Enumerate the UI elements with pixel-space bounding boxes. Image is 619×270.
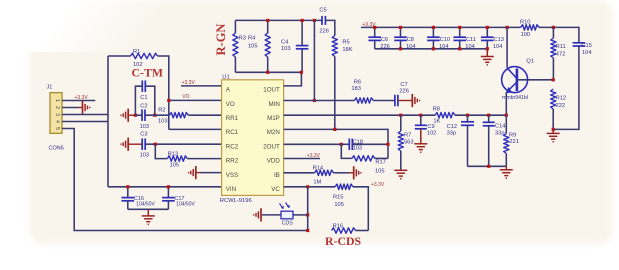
svg-text:104/50V: 104/50V: [136, 202, 155, 208]
svg-text:103: 103: [140, 152, 150, 158]
capacitor C3: [141, 138, 143, 150]
resistor R14: [315, 170, 334, 175]
resistor R17: [352, 156, 375, 161]
resistor R2: [169, 113, 188, 118]
resistor R9: [505, 115, 507, 133]
svg-text:Q1: Q1: [526, 59, 534, 65]
wire: RC1 pin wire: [169, 128, 222, 130]
svg-text:33p: 33p: [447, 130, 457, 136]
wire: R8 to emitter node: [455, 114, 506, 116]
node M2N-R5 junction: [333, 128, 336, 131]
node VO junction: [167, 99, 170, 102]
ground below C16/C17: [147, 209, 149, 216]
node base junction: [552, 78, 555, 81]
svg-text:U1: U1: [222, 75, 229, 81]
wire: C5 to R5 corner: [325, 20, 334, 35]
ground below C9: [420, 129, 422, 144]
wire: R6 to C7: [373, 100, 395, 102]
svg-text:C6: C6: [381, 37, 388, 43]
svg-text:RCWL-9196: RCWL-9196: [220, 198, 252, 204]
wire: IB pin to R14: [284, 172, 315, 174]
svg-text:103: 103: [140, 124, 150, 130]
svg-text:R11: R11: [556, 44, 566, 50]
node VC junction: [306, 185, 309, 188]
capacitor C1 with parallel loop: [135, 86, 142, 115]
svg-text:VIN: VIN: [226, 186, 236, 193]
resistor R13: [167, 156, 187, 161]
wire: R1 right lead and vertical to VO/RC1: [158, 56, 169, 129]
node RC2 junction: [154, 143, 157, 146]
svg-text:M1P: M1P: [267, 115, 280, 122]
svg-text:C11: C11: [466, 37, 476, 43]
svg-text:+3.3V: +3.3V: [371, 182, 385, 188]
svg-text:J1: J1: [47, 85, 53, 91]
svg-text:R10: R10: [520, 19, 530, 25]
photoresistor CDS: [293, 214, 308, 216]
svg-text:RR1: RR1: [226, 115, 239, 122]
svg-text:R16: R16: [333, 223, 343, 229]
ground at CDS left (sideways): [260, 208, 262, 221]
node MIN junction: [313, 99, 316, 102]
svg-text:MIN: MIN: [268, 101, 279, 108]
capacitor C17: [167, 187, 169, 198]
wire: R15 right to +3.3V corner: [353, 187, 368, 231]
wire: R5 down to M2N: [334, 57, 336, 130]
wire: left vertical bus (R1/pin3/pin4/VIN): [107, 56, 109, 187]
svg-text:R-GN: R-GN: [214, 24, 228, 56]
resistor R7: [400, 115, 402, 131]
wire: J1 pin1 to +3.3V: [62, 100, 95, 102]
svg-text:C7: C7: [400, 82, 407, 88]
svg-text:R13: R13: [168, 151, 178, 157]
node C1-C2 left junction: [134, 114, 137, 117]
svg-text:R9: R9: [509, 133, 516, 139]
svg-text:226: 226: [399, 89, 409, 95]
wire: R14 to ground: [334, 172, 350, 174]
svg-text:RC1: RC1: [226, 129, 239, 136]
resistor R4: [267, 20, 269, 33]
wire: C15 down to R12 bottom: [553, 46, 579, 129]
wire: VC vertical to CDS and bottom: [307, 187, 309, 231]
resistor R15: [335, 184, 353, 189]
wire: R16 right lead: [356, 230, 369, 232]
capacitor C2: [135, 114, 142, 116]
wire: VDD pin to +3.3V: [284, 158, 320, 160]
svg-text:R3: R3: [239, 36, 246, 42]
resistor R10: [521, 25, 539, 30]
svg-text:CDS: CDS: [282, 221, 293, 227]
resistor R16: [332, 228, 356, 233]
ground below R12: [552, 129, 554, 133]
node CDS junction: [306, 213, 309, 216]
wire: Q1 base to R11/R12 node: [517, 79, 553, 81]
svg-text:C1: C1: [140, 95, 147, 101]
svg-text:C8: C8: [407, 37, 414, 43]
transistor Q1 mmbr941bl: [502, 67, 528, 93]
capacitor C18: [341, 143, 349, 145]
svg-text:C12: C12: [447, 124, 457, 130]
svg-text:222: 222: [556, 103, 566, 109]
wire: C3 to RC2 pin: [146, 143, 222, 145]
node C1-C2 right junction: [153, 114, 156, 117]
svg-text:4: 4: [54, 120, 60, 123]
svg-text:R17: R17: [375, 159, 385, 165]
svg-text:105: 105: [375, 168, 385, 174]
node rail junctions: [266, 19, 269, 22]
ground at R14 right (sideways): [353, 166, 355, 179]
svg-text:CON5: CON5: [49, 146, 64, 152]
ground at C7 right (sideways): [398, 100, 412, 102]
ground at decoupling rail: [486, 47, 489, 50]
connector J1 CON5: [50, 93, 62, 134]
svg-text:VSS: VSS: [226, 172, 238, 179]
CDS light arrows: [280, 204, 284, 209]
resistor R1: [131, 53, 158, 58]
svg-text:+3.3V: +3.3V: [307, 153, 321, 159]
wire: R13 to RR2 pin: [187, 158, 221, 160]
capacitor C15: [573, 42, 586, 44]
svg-text:105: 105: [170, 163, 180, 169]
node M1P junctions: [399, 114, 402, 117]
wire: VC pin to R15: [284, 186, 335, 188]
wire: R1 left lead from node A vertical: [108, 55, 131, 57]
capacitor C9: [420, 115, 422, 125]
svg-text:C18: C18: [353, 139, 363, 145]
svg-text:183: 183: [351, 86, 361, 92]
svg-text:103: 103: [281, 46, 291, 52]
svg-text:RR2: RR2: [226, 158, 239, 165]
capacitor C10: [432, 27, 434, 37]
svg-text:102: 102: [427, 130, 437, 136]
wire: C2 to R2: [145, 114, 169, 116]
capacitor C13: [486, 27, 488, 37]
svg-text:C13: C13: [494, 37, 504, 43]
svg-text:R4: R4: [248, 36, 255, 42]
svg-text:R7: R7: [404, 132, 411, 138]
capacitor C6: [374, 27, 376, 37]
wire: decoupling caps bottom rail: [375, 48, 488, 50]
ground at J1 pin2 (sideways): [79, 107, 83, 109]
resistor R5: [332, 36, 337, 57]
svg-text:563: 563: [404, 139, 414, 145]
svg-text:103: 103: [158, 119, 168, 125]
svg-text:1: 1: [54, 99, 60, 102]
resistor R6: [354, 98, 373, 103]
wire: 2OUT pin wire: [284, 143, 342, 145]
wire: R-GN top rail: [235, 19, 322, 21]
wire: J1 pin4: [62, 121, 108, 123]
wire: 2OUT down to R17: [341, 144, 352, 158]
svg-text:R5: R5: [342, 39, 349, 45]
svg-text:R12: R12: [556, 96, 566, 102]
wire: J1 pin5 down and bottom run: [62, 129, 308, 231]
node C18 right junction: [386, 143, 389, 146]
svg-text:R2: R2: [158, 107, 165, 113]
wire: C5-left vertical to MIN: [313, 20, 315, 100]
svg-text:C15: C15: [581, 43, 591, 49]
capacitor C4: [301, 20, 303, 45]
node VIN junctions: [126, 185, 129, 188]
svg-text:+3.3V: +3.3V: [75, 95, 89, 101]
svg-text:1OUT: 1OUT: [263, 87, 280, 94]
svg-text:104: 104: [493, 44, 503, 50]
svg-text:2: 2: [54, 106, 60, 109]
svg-text:C14: C14: [495, 124, 505, 130]
wire: VIN pin wire: [108, 186, 222, 188]
node R12 bottom: [552, 128, 555, 131]
wire: VO pin wire: [169, 99, 222, 101]
svg-text:105: 105: [334, 202, 344, 208]
node bottom junction: [306, 229, 309, 232]
svg-text:C4: C4: [281, 39, 288, 45]
svg-text:IB: IB: [274, 172, 280, 179]
svg-text:+3.3V: +3.3V: [182, 80, 196, 86]
svg-text:103: 103: [353, 146, 363, 152]
wire: CDS left lead: [262, 214, 281, 216]
svg-text:C2: C2: [140, 103, 147, 109]
svg-text:472: 472: [556, 51, 566, 57]
svg-text:C3: C3: [140, 132, 147, 138]
capacitor C5 inline: [321, 16, 323, 25]
node 2OUT junction: [340, 143, 343, 146]
ground at C3 left (sideways): [127, 138, 129, 151]
svg-text:VC: VC: [271, 186, 280, 193]
svg-text:226: 226: [319, 29, 329, 35]
wire: R10 to C15 corner: [539, 27, 579, 42]
wire: C16/C17 bottom rail: [128, 208, 169, 210]
ground at VSS pin (sideways): [195, 166, 197, 179]
svg-text:M2N: M2N: [267, 129, 280, 136]
wire: MIN pin to R6: [284, 100, 355, 102]
ground below R7: [394, 169, 407, 171]
wire: J1 pin3: [62, 114, 108, 116]
wire: down to R13: [155, 144, 167, 158]
svg-text:R15: R15: [333, 194, 343, 200]
resistor R12: [551, 89, 556, 109]
wire: R-GN bottom rail to 1OUT: [235, 72, 301, 86]
capacitor C12: [467, 115, 469, 122]
wire: A pin wire with +3.3V: [181, 85, 222, 87]
capacitor C11: [459, 27, 461, 37]
svg-text:R1: R1: [133, 49, 140, 55]
svg-text:104: 104: [582, 50, 592, 56]
wire: Q1 collector up to rail: [506, 27, 508, 67]
svg-text:VDD: VDD: [267, 158, 281, 165]
svg-text:C-TM: C-TM: [132, 66, 163, 80]
svg-text:3: 3: [54, 113, 60, 116]
wire: R2 to RR1 pin: [188, 114, 221, 116]
node rail to R11/Q1: [506, 26, 509, 29]
svg-text:105: 105: [248, 44, 258, 50]
resistor R8: [435, 113, 455, 118]
capacitor C14: [488, 115, 490, 122]
svg-text:5: 5: [54, 127, 60, 130]
svg-text:100: 100: [521, 32, 531, 38]
svg-text:221: 221: [509, 139, 519, 145]
svg-text:VO: VO: [226, 101, 235, 108]
wire: M1P pin long wire: [284, 114, 435, 116]
svg-text:R8: R8: [433, 106, 440, 112]
wire: +3.3V rail: [361, 26, 521, 28]
capacitor C16: [127, 187, 129, 198]
svg-text:R6: R6: [354, 79, 361, 85]
wire: J1 pin2 to ground: [62, 107, 79, 109]
svg-text:R-CDS: R-CDS: [325, 234, 361, 248]
capacitor C8: [400, 27, 402, 37]
svg-text:18K: 18K: [342, 47, 352, 53]
svg-text:2OUT: 2OUT: [263, 143, 280, 150]
resistor R11: [552, 27, 554, 38]
wire: R17 right lead: [375, 157, 388, 159]
capacitor C7: [394, 95, 396, 107]
op IC U1 RCWL-9196 body: [222, 80, 284, 196]
ground at C2 left (sideways): [127, 109, 129, 122]
svg-text:R14: R14: [313, 165, 323, 171]
svg-text:1M: 1M: [313, 179, 321, 185]
svg-text:C5: C5: [319, 7, 326, 13]
wire: C12/C14/R9 bottom rail: [468, 165, 507, 167]
wire: Q1 emitter down: [505, 93, 507, 116]
svg-text:104/50V: 104/50V: [176, 202, 195, 208]
svg-text:C10: C10: [440, 37, 450, 43]
svg-text:C9: C9: [427, 124, 434, 130]
svg-text:RC2: RC2: [226, 143, 239, 150]
ground below bottom rail: [505, 166, 507, 170]
wire: M2N pin wire: [284, 129, 388, 158]
svg-text:VO: VO: [182, 94, 189, 100]
resistor R3: [234, 20, 236, 33]
